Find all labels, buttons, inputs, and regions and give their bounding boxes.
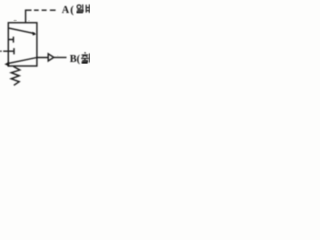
svg-text:A: A — [62, 5, 70, 16]
svg-text:(: ( — [70, 5, 74, 16]
svg-text:B(: B( — [70, 54, 81, 65]
